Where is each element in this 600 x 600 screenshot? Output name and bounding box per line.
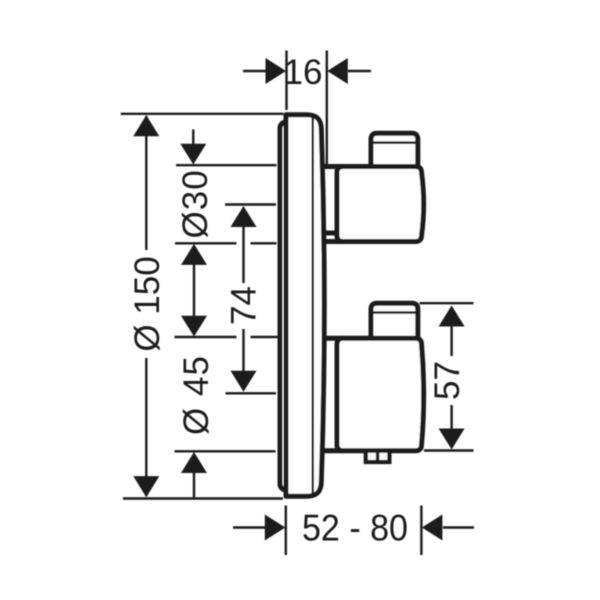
dim O45 bottom arrow stem <box>193 473 195 499</box>
arrow 74 top (up) <box>231 206 257 227</box>
bottom handle cap groove <box>371 311 418 314</box>
dim O30 ext top <box>176 164 277 166</box>
svg-text:Ø 150: Ø 150 <box>128 256 167 351</box>
top handle body <box>337 167 424 242</box>
dim 74 ext top <box>225 203 276 205</box>
arrow 74 bottom (down) <box>231 371 257 392</box>
svg-text:Ø 45: Ø 45 <box>177 355 216 435</box>
dim 74 stem lower <box>242 329 244 371</box>
plate (escutcheon side view) <box>286 115 324 497</box>
shared stem between O30 and O45 arrows <box>193 265 195 317</box>
svg-text:Ø30: Ø30 <box>176 169 215 238</box>
svg-text:16: 16 <box>284 53 323 92</box>
dim O150 line lower <box>145 358 147 496</box>
plate rim inner line <box>312 118 314 493</box>
dim O150 ext top <box>121 113 284 115</box>
dim 52-80 ext left <box>285 506 287 556</box>
arrow O30 top (down) <box>180 144 206 165</box>
dim O30 ext bottom <box>175 242 277 244</box>
dim 52-80 tail left <box>233 526 265 528</box>
svg-text:57: 57 <box>428 361 467 400</box>
bottom handle body <box>337 338 424 450</box>
arrow O150 bottom <box>133 476 159 497</box>
dim 16 ext line right <box>326 51 328 165</box>
arrow 57 top (up) <box>439 306 465 327</box>
dim O45 ext bottom <box>175 450 276 452</box>
dim O150 ext bottom <box>123 497 283 499</box>
dim 57 stem upper <box>450 326 452 356</box>
dim 57 ext bottom <box>424 449 474 451</box>
arrow 16 right <box>327 58 348 84</box>
top handle sleeve top edge <box>322 164 343 169</box>
dim O30 top arrow stem <box>192 129 194 145</box>
dim 74 ext bottom <box>226 392 277 394</box>
arrow O30 bottom (up) <box>181 244 207 265</box>
arrow O150 top <box>133 115 159 136</box>
dim 16 tail left <box>243 70 266 72</box>
bottom handle bottom edge extension <box>321 448 343 453</box>
arrow 52-80 left (right-pointing) <box>265 515 286 541</box>
dim 57 ext top <box>420 302 474 304</box>
bottom handle tab divider <box>376 451 379 462</box>
svg-text:74: 74 <box>224 286 263 325</box>
dim 57 stem lower <box>450 405 452 429</box>
arrow 52-80 right (left-pointing) <box>422 515 443 541</box>
bottom handle sleeve top edge <box>322 336 343 341</box>
top handle bottom edge extension <box>324 239 344 244</box>
top handle sleeve bottom step <box>325 231 338 236</box>
dim 52-80 ext right <box>420 506 422 556</box>
bottom handle cap <box>371 303 418 340</box>
arrow 16 left <box>266 58 287 84</box>
sleeve behind plate <box>280 122 306 490</box>
dim 16 ext line left <box>285 51 287 111</box>
svg-text:52 - 80: 52 - 80 <box>302 508 408 549</box>
dim 52-80 tail right <box>443 526 474 528</box>
dim 74 stem upper <box>242 227 244 284</box>
bottom handle tab <box>366 451 390 462</box>
arrow O45 top (down) <box>181 316 207 337</box>
arrow 57 bottom (down) <box>439 429 465 450</box>
top handle cap <box>371 133 418 168</box>
arrow O45 bottom (up) <box>181 452 207 473</box>
dim 16 tail right <box>348 70 371 72</box>
dim O150 line upper <box>145 116 147 250</box>
dim O45 ext top <box>175 336 279 338</box>
top handle cap groove <box>371 141 418 144</box>
